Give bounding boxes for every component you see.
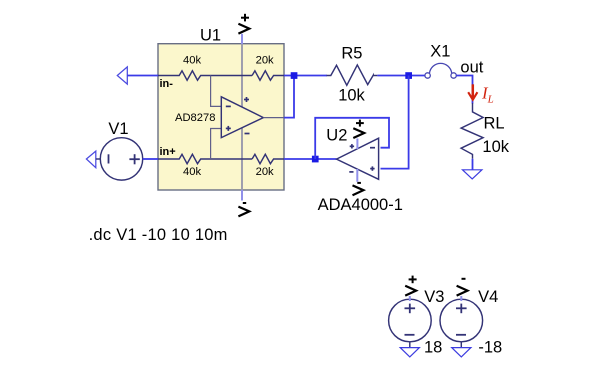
switch X1 [425, 63, 456, 78]
wire feedback loop node C to U2 inverting input [315, 118, 389, 159]
svg-text:RL: RL [484, 114, 505, 132]
current arrow IL [468, 84, 477, 99]
wire V4 bottom stub [460, 342, 462, 348]
ground (V4) [452, 348, 471, 357]
power flag V+ (V3) [405, 276, 416, 296]
wire U1 ref to node C to U2 output [284, 158, 337, 160]
node A junction [291, 72, 298, 79]
svg-text:U1: U1 [200, 27, 221, 45]
svg-text:in+: in+ [160, 146, 176, 158]
U2 V- pin marker [349, 171, 353, 173]
U1 non-inverting input marker [226, 126, 231, 131]
svg-text:10k: 10k [338, 86, 365, 104]
V1 minus terminal bar [108, 154, 110, 163]
svg-text:20k: 20k [256, 54, 274, 66]
wire V3 bottom stub [409, 342, 411, 348]
V1 plus marker [129, 154, 139, 164]
svg-text:V3: V3 [424, 288, 444, 306]
power flag V- (U2) [353, 183, 364, 195]
wire RL to ground [472, 159, 474, 170]
node C junction [312, 156, 319, 163]
U1 V- pin marker [245, 133, 250, 135]
svg-text:out: out [460, 59, 483, 77]
wire in- port to box [127, 75, 158, 77]
svg-text:in-: in- [160, 78, 174, 90]
wire V3 top stub [409, 296, 411, 301]
wire V1 to in+ [143, 158, 158, 160]
svg-text:-18: -18 [478, 339, 502, 357]
resistor 20k (top, U1 internal) [252, 71, 284, 80]
wire R5 to node B [377, 75, 424, 77]
wire box to node A to R5 [284, 75, 327, 77]
wire V- stub [241, 190, 243, 201]
resistor 20k (bottom, U1 internal) [252, 154, 284, 163]
svg-text:ADA4000-1: ADA4000-1 [318, 196, 403, 214]
svg-text:40k: 40k [183, 166, 201, 178]
U1 V+ pin marker [244, 97, 249, 102]
U2 V+ pin marker [350, 144, 354, 148]
ground (V3) [400, 348, 419, 357]
ground (RL) [463, 170, 482, 179]
svg-text:10k: 10k [482, 138, 509, 156]
op-amp U1 triangle [221, 97, 263, 138]
voltage source V1 [100, 138, 142, 180]
resistor R5 [327, 65, 378, 85]
svg-text:18: 18 [424, 339, 442, 357]
wire U2 V+ stub [356, 139, 358, 150]
power flag V+ (U2) [353, 120, 364, 138]
wire X1 to out corner down [456, 76, 472, 104]
op-amp U2 triangle [337, 138, 379, 179]
node B junction [405, 72, 412, 79]
wire U1 output to node A [284, 76, 294, 118]
svg-text:V4: V4 [478, 288, 498, 306]
svg-text:20k: 20k [256, 166, 274, 178]
svg-text:V1: V1 [108, 120, 128, 138]
svg-text:.dc V1 -10 10 10m: .dc V1 -10 10 10m [89, 226, 228, 244]
U2 inverting input marker [370, 147, 375, 149]
wire V+ stub [241, 34, 243, 44]
power flag V- (V4) [457, 279, 468, 296]
voltage source V3 [389, 299, 432, 342]
power flag V+ [238, 14, 249, 34]
resistor 40k (bottom, U1 internal) [158, 154, 252, 163]
power rail V+/V- vertical [241, 44, 243, 190]
wire U2 V- stub [356, 169, 358, 182]
V4 plus marker [456, 304, 467, 314]
V4 minus marker [456, 334, 466, 336]
op-amp U1 macro box [158, 44, 284, 190]
V3 minus marker [405, 334, 415, 336]
wire arrow to V1 [96, 158, 101, 160]
wire node B down to U2 non-inverting input [381, 76, 409, 169]
U1 output wire (inside box) [263, 117, 284, 119]
svg-text:40k: 40k [183, 54, 201, 66]
svg-text:AD8278: AD8278 [175, 112, 215, 124]
voltage source V4 [440, 299, 483, 342]
wire tap to inverting input [211, 76, 222, 107]
svg-text:R5: R5 [341, 45, 362, 63]
wire tap to non-inverting input [211, 129, 222, 160]
port arrow V1 minus [86, 151, 95, 168]
wire V4 top stub [460, 296, 462, 301]
port arrow in- [117, 67, 127, 84]
power flag V- [238, 203, 249, 216]
svg-text:U2: U2 [326, 127, 347, 145]
svg-text:X1: X1 [430, 42, 450, 60]
V3 plus marker [405, 304, 416, 314]
U2 non-inverting input marker [370, 166, 374, 170]
U1 inverting input marker [226, 105, 231, 107]
resistor 40k (top, U1 internal) [158, 71, 252, 80]
resistor RL [461, 103, 483, 159]
